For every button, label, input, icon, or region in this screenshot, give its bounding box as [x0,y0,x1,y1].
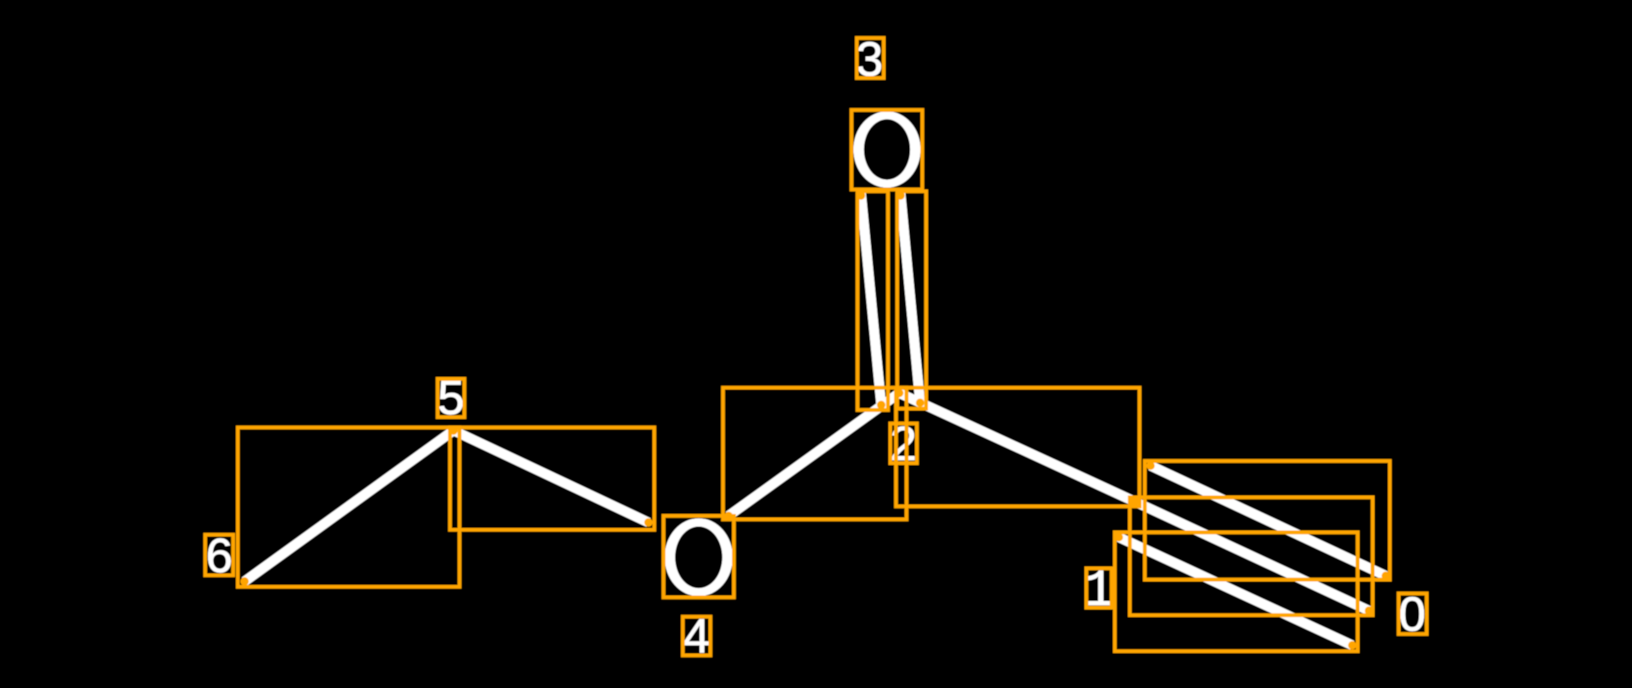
bbox atom O3 [852,110,923,190]
bbox double bond left line [858,191,889,410]
bond O4-C2 [729,393,900,516]
bbox bond C5-O4 [450,428,654,530]
endpoint dot atom C0 [1365,607,1373,615]
bbox double bond right line [897,191,926,408]
triple bond C1-C0 middle line [1135,502,1370,611]
endpoint dot triple bond top line left [1146,462,1154,470]
atom O3 letter [853,111,920,187]
endpoint dot triple bond bottom line left [1115,533,1123,541]
bbox triple bond middle line [1130,497,1373,615]
endpoint dot double bond left line bottom [877,401,885,409]
bond C2-C1 [899,393,1134,502]
triple bond C1-C0 top line [1151,466,1386,576]
endpoint dot bond O4-C2 at O4 [724,512,732,520]
bond C5-O4 [454,431,649,523]
bbox label 3 [857,38,884,78]
bbox label 0 [1399,594,1427,635]
bbox label 5 [438,379,465,417]
endpoint dot atom C5 [449,426,457,434]
endpoint dot atom C6 [240,577,248,585]
endpoint dot double bond right line top [896,191,904,199]
bbox bond C6-C5 [238,428,460,587]
endpoint dot double bond left line top [857,191,865,199]
bbox label 4 [683,617,711,656]
bbox label 2 [890,424,917,464]
endpoint dot atom C2 [895,389,903,397]
endpoint dot atom C1 [1130,497,1138,505]
bbox bond O4-C2 [723,388,907,520]
bond C6-C5 [245,431,454,582]
bbox label 1 [1086,568,1111,607]
bbox label 6 [205,535,233,576]
double bond C2=O3 left line [861,193,881,405]
bbox triple bond top line [1145,461,1390,580]
endpoint dot triple bond top line right [1382,572,1390,580]
double bond C2=O3 right line [901,193,921,403]
endpoint dot triple bond bottom line right [1348,641,1356,649]
endpoint dot bond C5-O4 at O4 [644,518,652,526]
bbox atom O4 [664,516,734,598]
bbox triple bond bottom line [1115,532,1358,651]
bbox bond C2-C1 [896,388,1140,507]
triple bond C1-C0 bottom line [1119,537,1353,645]
atom O4 letter [665,518,733,596]
endpoint dot double bond right line bottom [916,399,924,407]
